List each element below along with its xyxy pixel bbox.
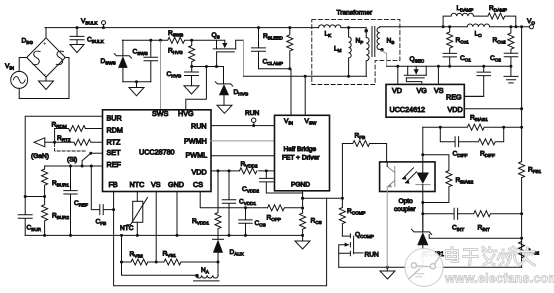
wire VBULK rail	[45, 27, 366, 29]
node QS gate row	[192, 66, 224, 68]
op-amp U4 half-bridge box	[275, 115, 330, 191]
wire VS pin	[437, 66, 439, 84]
WATERMARK	[405, 247, 554, 287]
resistor RCo2	[508, 27, 514, 54]
resistor ROPP	[268, 205, 303, 211]
wire VIN return	[19, 58, 69, 99]
transformer dashed box	[312, 20, 400, 85]
wire GND pin	[176, 192, 178, 236]
inductor LDAMP	[443, 13, 488, 27]
wire REF pin	[45, 165, 103, 167]
wire GND bus	[25, 234, 302, 236]
resistor RFB2	[519, 242, 525, 258]
wire VIN to bridge	[19, 58, 27, 72]
resistor RBIAS1	[423, 124, 522, 130]
wire ATL431 ref	[429, 235, 521, 239]
capacitor CVDD1	[222, 171, 236, 236]
winding NP	[366, 28, 369, 77]
resistor RBUR2	[42, 197, 48, 236]
earth ground (CO2)	[504, 66, 518, 83]
svg-text:VDD: VDD	[448, 105, 463, 114]
capacitor CSWS	[144, 40, 158, 82]
wire SET pin + selector	[91, 152, 103, 154]
resistor RBIAS2	[423, 155, 452, 203]
resistor RVS2	[122, 259, 157, 265]
ground (right bus)	[380, 267, 395, 279]
inductor LO	[467, 24, 489, 27]
resistor RINT	[458, 211, 522, 217]
resistor RDAMP	[488, 13, 516, 27]
capacitor CFB	[91, 166, 113, 215]
node RUN terminal	[252, 118, 256, 122]
svg-text:Half Bridge: Half Bridge	[284, 146, 317, 153]
capacitor CBUR	[18, 197, 32, 236]
wire FB node row	[303, 197, 343, 199]
wire PWML pin	[211, 155, 275, 157]
resistor RVS1	[156, 259, 218, 265]
capacitor CHVG	[185, 67, 199, 86]
LED (opto)	[422, 127, 424, 172]
svg-text:Opto: Opto	[399, 198, 414, 205]
capacitor CREF	[64, 166, 77, 235]
wire FB long route	[114, 192, 327, 286]
svg-text:RUN: RUN	[365, 252, 380, 259]
svg-text:(Si): (Si)	[67, 157, 77, 164]
svg-text:BUR: BUR	[107, 114, 122, 123]
light arrows (opto)	[403, 168, 417, 183]
resistor RCo1	[447, 27, 453, 54]
ground (RCS)	[295, 235, 310, 249]
wire VS pin	[155, 192, 157, 263]
inductor LK	[319, 25, 341, 28]
source VIN	[11, 71, 28, 88]
capacitor CO1	[443, 53, 457, 66]
wire PWMH pin (gray)	[211, 140, 275, 142]
resistor RBLEED	[288, 26, 291, 29]
svg-text:RUN: RUN	[245, 110, 260, 117]
inductor LM	[349, 28, 352, 77]
thermistor NTC	[136, 192, 138, 202]
diode bridge DBG	[45, 28, 47, 38]
svg-text:PGND: PGND	[291, 182, 310, 189]
wire REG pin	[464, 95, 483, 97]
wire VDD net	[211, 170, 275, 172]
svg-text:VD: VD	[392, 86, 402, 95]
wire bottom-right ground bus	[339, 266, 522, 268]
opto coupler U3 box	[380, 162, 435, 192]
wire SWS pin (gray)	[160, 40, 162, 110]
resistor RVDD1	[215, 171, 221, 239]
op-amp U1 UCC28780 box	[103, 110, 212, 192]
capacitor CDIFF	[440, 127, 458, 147]
wire DSWS-CSWS bottom	[123, 81, 151, 83]
wire VS divider row	[122, 235, 197, 275]
svg-text:SWS: SWS	[152, 109, 169, 118]
wire clamp bottom to VIN	[259, 69, 292, 116]
svg-text:RDM: RDM	[107, 125, 123, 134]
phototransistor (opto)	[387, 167, 395, 188]
svg-text:UCC28780: UCC28780	[139, 148, 175, 157]
resistor RRTZ	[45, 139, 103, 145]
resistor RCS	[300, 213, 306, 235]
wire opto emitter (gray)	[386, 187, 388, 267]
winding NA	[196, 275, 218, 278]
svg-text:NTC: NTC	[120, 225, 134, 232]
svg-text:HVG: HVG	[178, 109, 194, 118]
capacitor CVDD2	[260, 171, 303, 193]
ground (CHVG)	[184, 86, 199, 94]
svg-text:UCC24612: UCC24612	[390, 105, 426, 114]
wire secondary bus	[387, 65, 511, 67]
capacitor CCS	[239, 208, 252, 236]
wire RUN pin	[211, 125, 275, 127]
node SWS network	[122, 39, 160, 41]
svg-text:RUN: RUN	[191, 121, 207, 130]
svg-text:PWMH: PWMH	[184, 137, 207, 146]
svg-text:(GaN): (GaN)	[31, 153, 49, 160]
svg-text:VDD: VDD	[192, 168, 207, 177]
ground (bridge)	[39, 77, 54, 90]
zener DSWS	[122, 40, 124, 56]
resistor RFB	[342, 141, 386, 199]
svg-text:CS: CS	[193, 180, 203, 189]
capacitor CO2	[504, 53, 518, 66]
svg-text:VG: VG	[417, 86, 428, 95]
diode DAUX	[213, 238, 224, 240]
op-amp U2 UCC24612 box	[386, 84, 464, 117]
node VBULK terminal	[102, 21, 106, 25]
svg-text:www.elecfans.com: www.elecfans.com	[444, 272, 554, 286]
winding NS	[377, 27, 380, 50]
svg-text:VS: VS	[151, 180, 161, 189]
core	[372, 27, 375, 57]
capacitor CINT	[423, 208, 458, 219]
wire VD pin	[397, 66, 399, 84]
resistor RSWS	[161, 37, 192, 43]
svg-text:SET: SET	[107, 148, 122, 157]
capacitor REG bypass	[465, 66, 491, 96]
resistor RDIFF	[459, 127, 504, 145]
ground (SWS net)	[129, 82, 144, 96]
resistor RRDM	[55, 126, 103, 143]
resistor RVDD2	[239, 168, 256, 174]
wire VO branch	[521, 27, 523, 267]
svg-text:REG: REG	[446, 93, 462, 102]
resistor RBUR1	[42, 166, 48, 197]
svg-text:FET + Driver: FET + Driver	[282, 155, 320, 162]
svg-text:NTC: NTC	[130, 180, 145, 189]
wire output rail	[380, 26, 530, 28]
wire BUR tap row	[25, 196, 44, 198]
svg-text:+: +	[43, 41, 47, 47]
svg-text:Transformer: Transformer	[337, 10, 373, 17]
capacitor CBULK	[76, 26, 79, 29]
resistor RHVG	[189, 40, 195, 66]
wire QS source route (gray)	[243, 40, 245, 76]
wire switch node	[244, 75, 367, 77]
svg-text:REF: REF	[107, 160, 122, 169]
capacitor CCLAMP	[257, 26, 260, 29]
wire half-bridge PGND	[302, 192, 304, 214]
svg-text:RTZ: RTZ	[107, 138, 121, 147]
wire VDD pin	[464, 108, 521, 110]
node VO terminal	[530, 25, 534, 29]
shunt regulator ATL431	[422, 203, 424, 232]
wire NA to DAUX	[217, 262, 219, 275]
svg-text:coupler: coupler	[394, 206, 416, 213]
wire CS pin	[200, 192, 267, 208]
ground (CBULK)	[70, 45, 84, 53]
zener DHVG	[223, 67, 225, 84]
svg-text:VS: VS	[434, 86, 444, 95]
svg-text:FB: FB	[109, 180, 118, 189]
wire NS bottom (gray)	[381, 51, 386, 67]
resistor RFB1	[519, 162, 525, 178]
ground (DHVG)	[217, 105, 232, 113]
arrow GaN option	[34, 138, 45, 147]
wire BUR pin	[25, 116, 102, 196]
wire VSW drop	[304, 76, 306, 115]
svg-text:PWML: PWML	[186, 150, 208, 159]
resistor RCOMP	[339, 198, 345, 236]
wire HVG pin route	[186, 67, 207, 110]
svg-text:GND: GND	[168, 180, 184, 189]
